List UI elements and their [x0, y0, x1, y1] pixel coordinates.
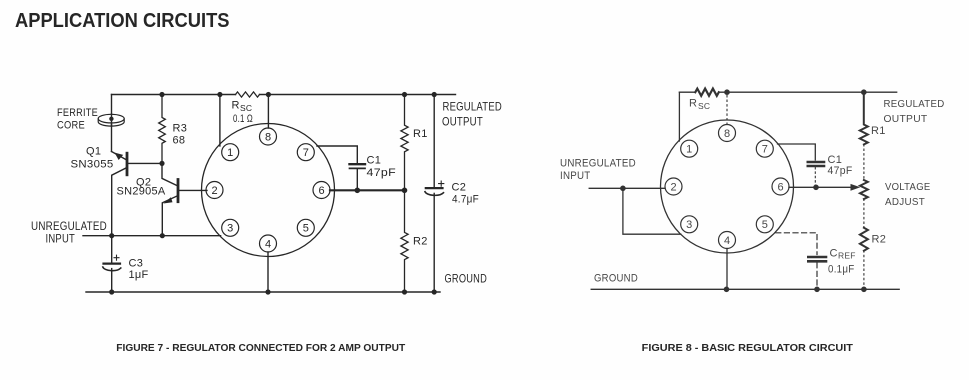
- svg-text:APPLICATION CIRCUITS: APPLICATION CIRCUITS: [15, 10, 230, 32]
- node: top rail / pin8: [724, 89, 730, 95]
- svg-text:6: 6: [777, 181, 783, 193]
- svg-text:4: 4: [265, 238, 271, 250]
- wire: pin4 to ground (fig8): [726, 249, 728, 290]
- svg-text:SN2905A: SN2905A: [117, 186, 166, 198]
- wire: pin4 to ground: [267, 252, 269, 292]
- arrow: voltage adjust wiper: [851, 184, 861, 191]
- svg-text:47pF: 47pF: [828, 165, 853, 177]
- wire: unregulated input (fig8): [589, 187, 665, 189]
- resistor RSC (fig8, bold): [695, 89, 719, 96]
- node: top rail / R1 junction: [402, 92, 407, 97]
- node: ground / CREF: [814, 287, 820, 293]
- svg-text:C2: C2: [452, 182, 467, 194]
- transistor Q2 SN2905A: [162, 163, 207, 235]
- wire: left vertical to ferrite and Q1 emitter: [111, 95, 113, 152]
- svg-text:R1: R1: [413, 128, 428, 140]
- svg-text:VOLTAGE: VOLTAGE: [885, 181, 931, 193]
- svg-text:0.1 Ω: 0.1 Ω: [233, 113, 253, 125]
- svg-text:8: 8: [724, 128, 730, 140]
- IC U1 regulator can (fig7): [202, 124, 335, 257]
- wire: fig7 ground rail: [86, 291, 440, 293]
- svg-text:C1: C1: [367, 155, 382, 167]
- svg-text:6: 6: [318, 185, 324, 197]
- svg-text:5: 5: [303, 223, 309, 235]
- pin 7: [756, 140, 773, 157]
- svg-text:1: 1: [227, 147, 233, 159]
- svg-text:C3: C3: [129, 258, 144, 270]
- wire: pin8 to top rail: [267, 95, 269, 129]
- pin 4: [719, 232, 736, 249]
- pin 2: [665, 178, 682, 195]
- node: top rail / C2 junction: [432, 92, 437, 97]
- pin 1: [681, 140, 698, 157]
- svg-text:R2: R2: [413, 236, 428, 248]
- capacitor C1 47pF (fig8, bold plates): [808, 162, 824, 187]
- svg-text:R: R: [689, 98, 697, 110]
- svg-text:SC: SC: [698, 101, 710, 111]
- svg-text:7: 7: [762, 144, 768, 156]
- svg-text:4: 4: [724, 235, 730, 247]
- pin 2: [206, 182, 223, 199]
- capacitor C2 4.7uF: [425, 95, 444, 293]
- pin 4: [260, 235, 277, 252]
- resistor R2 (fig8, bold): [860, 228, 868, 251]
- svg-text:SN3055: SN3055: [71, 159, 114, 171]
- wire: dotted drop to pin 8: [726, 96, 728, 125]
- node: top rail / pin8 junction: [266, 92, 271, 97]
- svg-text:FERRITE: FERRITE: [57, 107, 98, 119]
- svg-text:C: C: [830, 248, 838, 260]
- svg-text:7: 7: [303, 147, 309, 159]
- svg-text:REF: REF: [838, 251, 856, 261]
- wire: pin7 to C1: [317, 146, 357, 163]
- fig8 text labels: [560, 98, 945, 285]
- node: pin6 wire / R1 line: [402, 188, 408, 194]
- node: top rail / R1: [861, 89, 867, 95]
- node: ground / R2: [861, 287, 867, 293]
- svg-text:INPUT: INPUT: [560, 170, 591, 182]
- svg-text:R3: R3: [173, 123, 188, 135]
- node: ground / C2: [432, 289, 437, 294]
- svg-text:GROUND: GROUND: [445, 272, 488, 286]
- node: ground / C3: [109, 289, 114, 294]
- svg-text:8: 8: [265, 131, 271, 143]
- pin 6: [313, 182, 330, 199]
- svg-text:R2: R2: [872, 234, 887, 246]
- fig7 text labels: [31, 100, 502, 286]
- wire: fig8 ground rail: [591, 288, 899, 290]
- svg-text:4.7μF: 4.7μF: [452, 194, 479, 206]
- resistor R1 (fig8, bold): [860, 92, 868, 144]
- svg-text:OUTPUT: OUTPUT: [884, 114, 928, 125]
- IC U2 regulator can (fig8): [661, 120, 794, 253]
- wire: pin6 to voltage adjust arrow: [789, 186, 851, 188]
- svg-text:68: 68: [173, 135, 186, 147]
- node: ground / R2: [402, 289, 407, 294]
- svg-text:INPUT: INPUT: [46, 232, 76, 246]
- resistor R2 (fig7): [401, 190, 408, 292]
- svg-text:REGULATED: REGULATED: [884, 99, 945, 110]
- ferrite core (bead on wire): [98, 114, 124, 126]
- pin 5: [297, 219, 314, 236]
- node: pin6 wire / C1 bottom: [813, 185, 819, 191]
- wire: dotted R2 to ground: [863, 251, 865, 290]
- svg-text:SC: SC: [240, 103, 252, 113]
- node: R3 / Q1 base / Q2 junction: [159, 161, 164, 166]
- pin 8: [260, 128, 277, 145]
- svg-text:1: 1: [686, 144, 692, 156]
- svg-text:CORE: CORE: [57, 120, 85, 132]
- svg-text:Q1: Q1: [86, 146, 101, 158]
- node: ground / pin4: [265, 289, 270, 294]
- svg-text:FIGURE 8 - BASIC REGULATOR CIR: FIGURE 8 - BASIC REGULATOR CIRCUIT: [642, 342, 854, 354]
- resistor R1 (fig7): [401, 95, 408, 191]
- resistor R3 68: [159, 95, 166, 164]
- capacitor CREF 0.1uF (bold plates): [808, 257, 826, 289]
- node: top rail / pin1 junction: [217, 92, 222, 97]
- svg-text:OUTPUT: OUTPUT: [442, 115, 483, 129]
- capacitor C3 1uF: [103, 236, 121, 292]
- capacitor C1 47pF (fig7): [350, 164, 366, 190]
- svg-text:ADJUST: ADJUST: [885, 196, 925, 208]
- pin 1: [222, 144, 239, 161]
- svg-text:FIGURE 7 - REGULATOR CONNECTED: FIGURE 7 - REGULATOR CONNECTED FOR 2 AMP…: [116, 342, 405, 354]
- svg-text:REGULATED: REGULATED: [443, 100, 503, 114]
- node: ground / pin4: [724, 287, 730, 293]
- svg-text:2: 2: [211, 185, 217, 197]
- node: input / Q1 collector / C3: [109, 233, 114, 238]
- svg-text:GROUND: GROUND: [594, 273, 638, 285]
- node: top rail / R3 junction: [159, 92, 164, 97]
- resistor RSC (fig7): [236, 92, 260, 97]
- wire: input L-drop to pin 3: [623, 188, 681, 234]
- pin 6: [772, 178, 789, 195]
- transistor Q1 SN3055: [112, 152, 163, 236]
- node: input junction: [620, 186, 626, 192]
- svg-text:5: 5: [762, 219, 768, 231]
- potentiometer voltage adjust (fig8, bold): [860, 180, 868, 199]
- wire: pin1 to top rail: [219, 95, 221, 147]
- node: input / Q2: [160, 233, 165, 238]
- pin 5: [756, 216, 773, 233]
- svg-text:47pF: 47pF: [367, 167, 397, 179]
- svg-text:UNREGULATED: UNREGULATED: [560, 158, 636, 170]
- pin 3: [222, 219, 239, 236]
- node: pin6 wire / C1: [355, 188, 361, 194]
- wire: pin7 to C1 (fig8): [778, 144, 816, 160]
- pin 3: [681, 216, 698, 233]
- wire: top rail left drop to pin 1: [678, 92, 680, 141]
- wire: fig8 top rail: [679, 91, 896, 93]
- pin 8: [719, 125, 736, 142]
- wire: unregulated input (fig7): [83, 235, 221, 237]
- svg-text:R: R: [232, 100, 240, 112]
- wire: dotted R1 to pot: [863, 145, 865, 181]
- svg-text:1μF: 1μF: [129, 269, 149, 281]
- wire: pin6 to R1 line (bold): [330, 189, 405, 191]
- svg-text:0.1μF: 0.1μF: [828, 264, 855, 276]
- svg-text:3: 3: [227, 223, 233, 235]
- svg-text:R1: R1: [871, 125, 886, 137]
- svg-text:2: 2: [670, 181, 676, 193]
- wire: pin5 dashed to CREF: [776, 233, 817, 255]
- pin 7: [297, 144, 314, 161]
- wire: dotted pot to R2: [863, 199, 865, 228]
- svg-text:3: 3: [686, 219, 692, 231]
- wire: fig7 top rail: [112, 94, 456, 96]
